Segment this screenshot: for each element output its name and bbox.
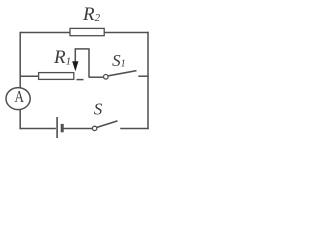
rheostat R1 slider arrow head	[72, 61, 78, 71]
wire middle branch from left wire	[20, 75, 39, 77]
rheostat R1 right terminal stub	[77, 79, 84, 81]
svg-text:S1: S1	[112, 51, 126, 70]
svg-text:A: A	[14, 88, 24, 106]
wire left vertical	[19, 32, 21, 89]
switch S pivot circle	[92, 126, 96, 130]
wire to switch S1	[89, 76, 104, 78]
wire below ammeter	[19, 109, 21, 129]
wire battery to switch S	[64, 128, 93, 130]
resistor R2	[70, 28, 104, 35]
svg-text:R1: R1	[53, 47, 71, 68]
svg-text:S: S	[94, 100, 103, 119]
switch S1 pivot circle	[104, 75, 109, 80]
battery BT1 short thick plate	[61, 124, 64, 132]
wire top-left horizontal	[20, 32, 70, 34]
svg-text:R2: R2	[82, 4, 101, 25]
rheostat R1 slider wire down	[88, 49, 90, 78]
wire right vertical	[147, 32, 149, 129]
switch S1 blade	[108, 71, 136, 76]
wire switch S to bottom-right corner	[120, 128, 149, 130]
battery BT1 long plate	[56, 117, 58, 138]
wire switch S1 to right wire	[138, 75, 148, 77]
switch S blade	[97, 121, 118, 128]
rheostat R1 slider wire top horizontal	[75, 48, 90, 50]
wire top-right horizontal	[104, 32, 149, 34]
rheostat R1 body	[39, 73, 74, 80]
rheostat R1 slider wire up	[74, 49, 76, 64]
wire bottom-left horizontal	[20, 128, 56, 130]
ammeter A1 circle	[6, 88, 30, 110]
